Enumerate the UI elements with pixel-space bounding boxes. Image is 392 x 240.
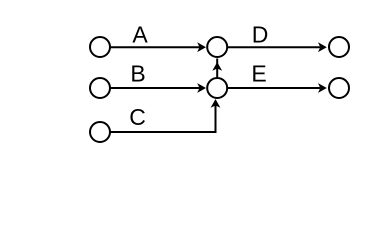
- node circle 6: [329, 37, 349, 57]
- svg-text:C: C: [129, 104, 146, 130]
- node circle 3: [90, 122, 110, 142]
- node circle 1: [90, 37, 110, 57]
- node circle 4: [207, 37, 227, 57]
- wire arrow D line: [228, 42, 327, 52]
- wire arrow B line: [110, 83, 206, 93]
- node circle 2: [90, 78, 110, 98]
- wire dummy vertical arrow: [212, 59, 222, 78]
- svg-text:B: B: [130, 60, 145, 86]
- node circle 5: [207, 78, 227, 98]
- wire arrow C elbow line: [110, 99, 220, 132]
- wire arrow E line: [228, 83, 327, 93]
- svg-text:D: D: [252, 21, 269, 47]
- node circle 7: [329, 78, 349, 98]
- svg-text:A: A: [132, 21, 148, 47]
- svg-text:E: E: [251, 60, 266, 86]
- wire arrow A line: [110, 42, 206, 52]
